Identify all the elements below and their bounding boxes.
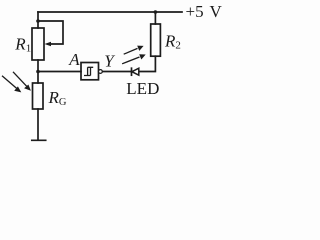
svg-text:+5V: +5V — [186, 2, 223, 21]
svg-text:Y: Y — [104, 52, 115, 71]
svg-text:R2: R2 — [164, 32, 181, 52]
svg-text:LED: LED — [126, 79, 159, 98]
svg-text:A: A — [68, 50, 80, 69]
svg-text:RG: RG — [48, 88, 67, 108]
svg-text:R1: R1 — [14, 34, 31, 54]
